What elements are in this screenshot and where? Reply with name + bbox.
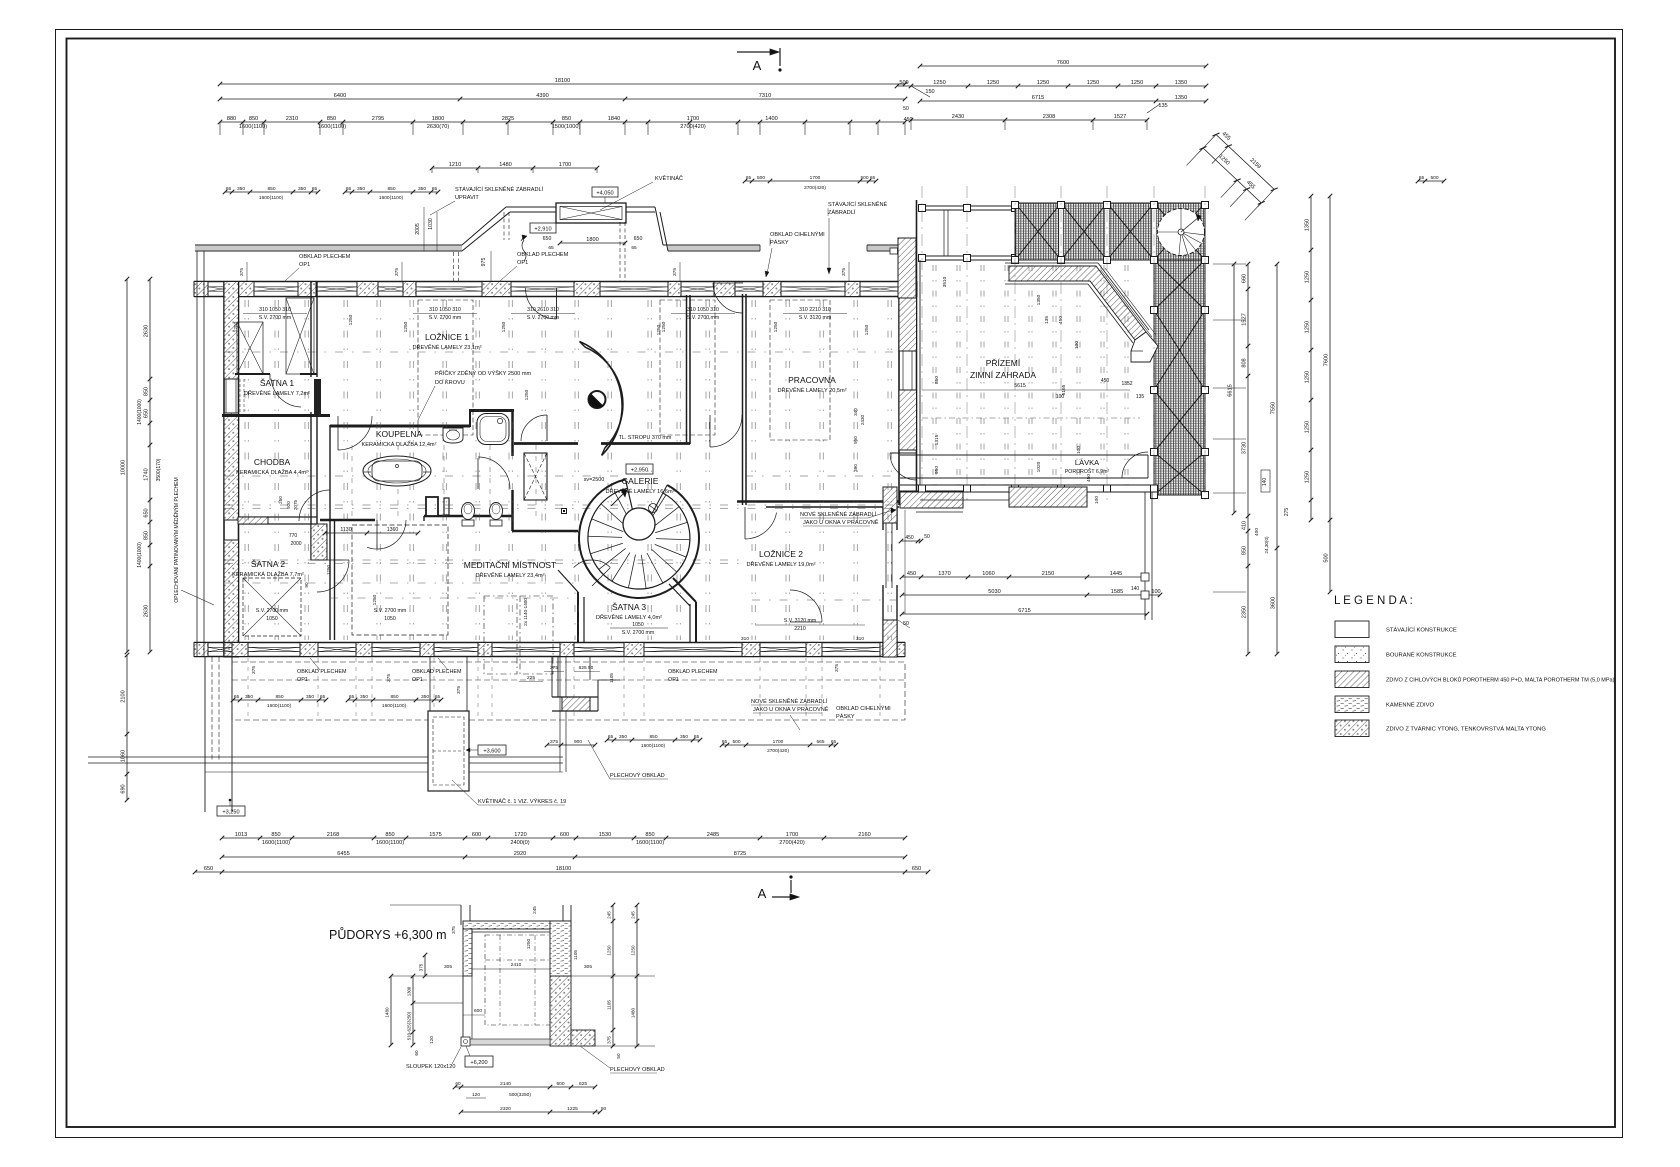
bottom small dim groups	[233, 699, 326, 701]
svg-text:340: 340	[853, 408, 858, 416]
railing dashed connectors	[453, 252, 455, 281]
wall pillar top x298	[298, 282, 316, 297]
svg-text:UPRAVIT: UPRAVIT	[455, 195, 479, 201]
svg-text:1250: 1250	[987, 80, 999, 86]
wall meditacni left	[329, 521, 331, 640]
column top 922	[919, 205, 926, 212]
svg-text:1250: 1250	[933, 80, 945, 86]
svg-text:6715: 6715	[1018, 608, 1030, 614]
svg-text:LÁVKA: LÁVKA	[1075, 458, 1099, 467]
right brace X 452	[1154, 452, 1205, 495]
svg-text:2100: 2100	[121, 690, 127, 702]
section symbol circle galerie	[589, 391, 606, 408]
interior joist lines vertical	[343, 300, 345, 640]
svg-text:1600(1100): 1600(1100)	[379, 195, 404, 201]
window top 254	[254, 286, 298, 288]
svg-text:STÁVAJÍCÍ KONSTRUKCE: STÁVAJÍCÍ KONSTRUKCE	[1386, 627, 1457, 634]
koupelna dims 1130 1360	[325, 532, 418, 534]
svg-text:1352: 1352	[1121, 381, 1132, 387]
svg-text:1250: 1250	[864, 324, 870, 335]
svg-text:ŠATNA 2: ŠATNA 2	[251, 559, 286, 569]
svg-text:310 1050 310: 310 1050 310	[687, 307, 719, 313]
svg-text:350: 350	[245, 694, 253, 700]
svg-text:S.V. 2700 mm: S.V. 2700 mm	[374, 608, 406, 614]
wall pillar bottom x232	[232, 643, 248, 657]
svg-text:850: 850	[144, 531, 150, 540]
svg-text:1600(1100): 1600(1100)	[376, 840, 404, 846]
svg-text:1250: 1250	[348, 314, 354, 325]
svg-text:850: 850	[645, 832, 654, 838]
door loznice2	[744, 507, 746, 539]
svg-text:1250: 1250	[773, 321, 779, 332]
wc 2	[490, 503, 503, 520]
door satna3 diag	[592, 568, 610, 586]
svg-text:OBKLAD PLECHEM: OBKLAD PLECHEM	[668, 669, 718, 675]
svg-text:500: 500	[860, 175, 868, 181]
detail ext lines	[571, 975, 655, 977]
planter kvetinac top	[556, 203, 626, 223]
door top loznice1	[713, 283, 743, 313]
stair arrow	[611, 492, 625, 506]
door top balcony loznice1	[556, 288, 558, 319]
svg-text:245: 245	[607, 911, 612, 919]
svg-text:+4,050: +4,050	[596, 191, 613, 197]
dimension chain top row detailed	[220, 121, 905, 123]
svg-text:390: 390	[853, 464, 858, 472]
svg-text:1250: 1250	[1305, 271, 1311, 283]
dimension chain garden 6715	[902, 613, 1147, 615]
duct stub koupelna	[426, 497, 438, 516]
svg-text:POROROŠT 6,9m²: POROROŠT 6,9m²	[1065, 468, 1110, 475]
right brace X 390	[1154, 390, 1205, 452]
svg-text:65: 65	[346, 186, 352, 192]
lower left wall strip	[204, 657, 206, 812]
svg-text:OBKLAD PLECHEM: OBKLAD PLECHEM	[517, 252, 569, 258]
roof spiral stair	[1158, 209, 1205, 256]
svg-text:65: 65	[631, 245, 637, 251]
dimension chain 7600 top right	[920, 65, 1206, 67]
svg-text:2430: 2430	[952, 114, 964, 120]
svg-text:KAMENNÉ ZDIVO: KAMENNÉ ZDIVO	[1386, 702, 1434, 709]
svg-text:1105: 1105	[573, 950, 578, 960]
svg-text:PLECHOVÝ OBKLAD: PLECHOVÝ OBKLAD	[610, 772, 665, 779]
svg-text:S.V. 2700 mm: S.V. 2700 mm	[622, 630, 654, 636]
junction wall block below lavka	[900, 491, 963, 508]
svg-text:4390: 4390	[536, 93, 548, 99]
svg-text:5030: 5030	[988, 589, 1000, 595]
svg-text:600: 600	[474, 1008, 482, 1014]
wall pillar top x574	[574, 282, 600, 297]
svg-text:60: 60	[455, 1081, 461, 1087]
dimension chain left 10000	[126, 279, 128, 652]
svg-text:1250: 1250	[1087, 80, 1099, 86]
column right 260	[1151, 257, 1158, 264]
window bottom 248	[248, 646, 300, 648]
planter below	[429, 657, 431, 711]
wall pracovna left	[742, 294, 744, 505]
svg-text:100: 100	[1074, 341, 1080, 349]
wall pillar top x845	[845, 282, 860, 297]
svg-text:NOVÉ SKLENĚNÉ ZÁBRADLÍ: NOVÉ SKLENĚNÉ ZÁBRADLÍ	[751, 697, 828, 705]
svg-text:50: 50	[903, 106, 909, 112]
svg-text:650: 650	[543, 236, 552, 242]
wall pillar bottom x560	[560, 643, 574, 657]
dimension chain bottom 6455 2920 8725	[222, 856, 905, 858]
small black square galerie	[562, 509, 567, 514]
svg-text:OP1: OP1	[297, 677, 308, 683]
svg-text:375: 375	[451, 926, 456, 934]
svg-text:6400: 6400	[334, 93, 346, 99]
svg-text:ZIMNÍ ZAHRADA: ZIMNÍ ZAHRADA	[970, 370, 1036, 380]
window top 735	[735, 286, 763, 288]
svg-text:1013: 1013	[235, 832, 247, 838]
svg-text:1527: 1527	[1114, 114, 1126, 120]
svg-text:120: 120	[472, 1092, 480, 1098]
winter garden bottom hatch block	[1009, 487, 1087, 507]
wall pillar bottom x880	[880, 643, 905, 657]
detail bottom dim chains	[455, 1086, 595, 1088]
section mark A top	[737, 51, 770, 53]
svg-text:350: 350	[421, 694, 429, 700]
svg-text:KVĚTINÁČ: KVĚTINÁČ	[655, 174, 683, 182]
column top 1015	[1012, 205, 1019, 212]
lavka door arc	[1122, 452, 1148, 478]
bottom dim 375 900 group	[547, 744, 595, 746]
svg-text:1600(1100): 1600(1100)	[641, 743, 666, 749]
svg-text:1700: 1700	[687, 116, 699, 122]
svg-text:1250: 1250	[1305, 321, 1311, 333]
svg-text:2700(420): 2700(420)	[779, 840, 805, 846]
svg-text:500: 500	[757, 175, 765, 181]
wall satna1 right	[310, 281, 312, 377]
svg-text:5615: 5615	[1014, 383, 1026, 389]
svg-text:PŮDORYS +6,300 m: PŮDORYS +6,300 m	[329, 927, 447, 942]
svg-text:900: 900	[574, 739, 582, 745]
window top 860	[860, 286, 899, 288]
svg-text:310: 310	[741, 636, 749, 642]
svg-text:KVĚTINÁČ č. 1 VIZ. VÝKRES č. 1: KVĚTINÁČ č. 1 VIZ. VÝKRES č. 19	[478, 797, 566, 805]
wall pillar bottom x356	[356, 643, 372, 657]
winter garden left wall junction	[919, 260, 921, 492]
svg-text:1250: 1250	[501, 321, 507, 332]
wall pillar top x357	[357, 282, 378, 297]
wall vestibule bottom thick	[222, 414, 330, 417]
svg-text:7600: 7600	[1057, 60, 1069, 66]
winter garden interior verticals	[932, 265, 934, 485]
svg-text:50: 50	[924, 534, 930, 540]
svg-text:1480: 1480	[499, 162, 511, 168]
svg-text:310 1050 310: 310 1050 310	[259, 307, 291, 313]
svg-text:410: 410	[1242, 521, 1248, 530]
svg-text:1585: 1585	[1111, 589, 1123, 595]
svg-text:600: 600	[556, 1081, 564, 1087]
lower horizontal lines	[88, 756, 563, 758]
svg-text:2310: 2310	[286, 116, 298, 122]
label +3,250 boxed	[217, 806, 245, 816]
door pracovna	[790, 621, 822, 623]
svg-text:140: 140	[1131, 586, 1140, 592]
svg-text:CHODBA: CHODBA	[254, 457, 291, 467]
svg-text:1350: 1350	[1175, 95, 1187, 101]
winter garden roof hatched band	[1015, 203, 1205, 260]
window top 681	[681, 286, 714, 288]
dimension chain left lower	[126, 655, 128, 800]
galerie curved balustrade	[580, 342, 623, 456]
window bottom 318	[318, 646, 356, 648]
wall chodba right	[310, 412, 312, 560]
wall pillar top x668	[668, 282, 681, 297]
dimension chain 2430 2308 1527	[911, 119, 1147, 121]
svg-text:1350: 1350	[1305, 219, 1311, 231]
svg-text:1480: 1480	[631, 1007, 636, 1018]
svg-text:650: 650	[144, 508, 150, 517]
svg-text:1250: 1250	[631, 945, 636, 956]
svg-text:450: 450	[907, 571, 916, 577]
svg-text:STÁVAJÍCÍ SKLENĚNÉ: STÁVAJÍCÍ SKLENĚNÉ	[828, 200, 888, 208]
svg-text:2700(420): 2700(420)	[680, 124, 706, 130]
svg-text:1600(1100): 1600(1100)	[267, 703, 292, 709]
svg-text:1600(1100): 1600(1100)	[259, 195, 284, 201]
svg-text:TL. STROPU 370 mm: TL. STROPU 370 mm	[619, 435, 672, 441]
column bottom 1061	[1058, 485, 1065, 492]
bottom right dim group	[722, 744, 836, 746]
svg-text:2795: 2795	[372, 116, 384, 122]
svg-text:850: 850	[327, 116, 336, 122]
top exterior wall band	[194, 281, 917, 283]
wall pillar top x194	[194, 282, 208, 297]
svg-text:L E G E N D A :: L E G E N D A :	[1334, 595, 1413, 607]
labels 650 1800 650 above wall	[560, 242, 625, 244]
svg-text:375: 375	[672, 268, 678, 276]
svg-text:2630: 2630	[144, 605, 150, 617]
top dim group 1700 2700(420) middle	[745, 180, 876, 182]
svg-text:1020: 1020	[1036, 461, 1042, 472]
lavka strip	[900, 454, 1148, 456]
window bottom 644	[644, 646, 742, 648]
wc 1	[462, 503, 475, 520]
svg-text:JAKO U OKNA V PRACOVNĚ: JAKO U OKNA V PRACOVNĚ	[803, 518, 879, 526]
svg-text:650: 650	[144, 409, 150, 418]
svg-text:DŘEVĚNÉ LAMELY 20,5m²: DŘEVĚNÉ LAMELY 20,5m²	[777, 386, 846, 394]
roof mullion strip 1107	[1105, 203, 1109, 260]
svg-text:1250: 1250	[233, 321, 239, 332]
svg-text:1050: 1050	[266, 616, 278, 622]
svg-text:1350: 1350	[1175, 80, 1187, 86]
garden chain extension corner	[904, 510, 906, 614]
svg-text:2005: 2005	[415, 223, 421, 235]
svg-text:1360: 1360	[387, 527, 399, 533]
svg-text:3510: 3510	[942, 276, 948, 287]
svg-text:375: 375	[239, 268, 245, 276]
left exterior wall	[223, 282, 225, 658]
svg-text:850: 850	[271, 832, 280, 838]
svg-text:350: 350	[360, 694, 368, 700]
svg-text:1315: 1315	[934, 434, 940, 445]
svg-text:2485: 2485	[707, 832, 719, 838]
svg-text:770: 770	[289, 533, 298, 539]
svg-text:350: 350	[306, 694, 314, 700]
window top 316	[316, 286, 357, 288]
svg-text:ZÁBRADLÍ: ZÁBRADLÍ	[828, 209, 856, 216]
svg-text:PÁSKY: PÁSKY	[836, 713, 855, 720]
svg-text:2350: 2350	[1242, 606, 1248, 618]
wall loznice1 right	[686, 295, 688, 444]
svg-text:375: 375	[607, 1036, 612, 1044]
roof brace X 5	[1015, 203, 1061, 260]
svg-text:6455: 6455	[337, 851, 349, 857]
svg-text:1800: 1800	[432, 116, 444, 122]
svg-text:135: 135	[1136, 394, 1145, 400]
detail inner dashed	[485, 935, 550, 1025]
svg-text:65: 65	[320, 694, 326, 700]
svg-text:S.V. 2700 mm: S.V. 2700 mm	[256, 608, 288, 614]
wall pillar top x237	[237, 282, 254, 297]
svg-text:375: 375	[550, 739, 558, 745]
svg-text:ZDIVO Z TVÁRNIC YTONG, TENKOVR: ZDIVO Z TVÁRNIC YTONG, TENKOVRSTVÁ MALTA…	[1386, 726, 1546, 733]
svg-text:PÁSKY: PÁSKY	[770, 239, 789, 246]
window top 378	[378, 286, 403, 288]
svg-text:1800: 1800	[586, 237, 598, 243]
column top 967	[964, 205, 971, 212]
parapet inner step	[1131, 332, 1158, 362]
svg-text:2630: 2630	[144, 325, 150, 337]
svg-text:+3,250: +3,250	[222, 810, 239, 816]
svg-text:510-625(3250): 510-625(3250)	[407, 1011, 412, 1040]
svg-text:OP1: OP1	[668, 677, 679, 683]
svg-text:400: 400	[1254, 528, 1260, 536]
wall satna1 bottom	[235, 373, 270, 375]
svg-text:PŘÍZEMÍ: PŘÍZEMÍ	[986, 358, 1021, 368]
winter garden bottom beam	[900, 484, 1154, 486]
svg-text:660: 660	[1242, 274, 1248, 283]
column bottom 922	[919, 485, 926, 492]
window bottom 434	[434, 646, 478, 648]
svg-text:6715: 6715	[1032, 95, 1044, 101]
column roof 1205	[1202, 202, 1209, 209]
svg-text:ZDIVO Z CIHLOVÝCH BLOKŮ POROTH: ZDIVO Z CIHLOVÝCH BLOKŮ POROTHERM 450 P+…	[1386, 677, 1615, 684]
svg-text:1600(1100): 1600(1100)	[636, 840, 664, 846]
svg-text:245: 245	[631, 911, 636, 919]
svg-text:65: 65	[432, 186, 438, 192]
winter garden right hatched band	[1154, 260, 1205, 495]
window bottom 372	[372, 646, 420, 648]
detail right wall ytong	[550, 976, 571, 1046]
detail right dim chains	[612, 905, 614, 1046]
svg-text:600: 600	[560, 832, 569, 838]
svg-text:450: 450	[1101, 378, 1110, 384]
wall pillar top x482	[482, 282, 511, 297]
svg-text:1700: 1700	[773, 739, 784, 745]
svg-text:450: 450	[904, 117, 913, 123]
svg-text:650: 650	[912, 866, 921, 872]
svg-text:KOUPELNA: KOUPELNA	[376, 429, 423, 439]
column bottom 1107	[1104, 485, 1111, 492]
svg-text:90: 90	[304, 582, 309, 588]
svg-text:DŘEVĚNÉ LAMELY 23,1m²: DŘEVĚNÉ LAMELY 23,1m²	[412, 343, 481, 351]
svg-text:1500(1000): 1500(1000)	[552, 124, 581, 130]
column roof 1061	[1058, 202, 1065, 209]
wall koupelna left	[329, 425, 331, 521]
svg-text:375: 375	[550, 665, 558, 671]
svg-text:1250: 1250	[1305, 471, 1311, 483]
svg-text:65: 65	[722, 739, 728, 745]
svg-text:10000: 10000	[121, 460, 127, 476]
winter garden interior horizontals	[922, 389, 1130, 391]
window bottom 760	[760, 646, 806, 648]
svg-text:65: 65	[234, 694, 240, 700]
wall pillar bottom x806	[806, 643, 822, 657]
column right 495	[1151, 492, 1158, 499]
column bottom 1015	[1012, 485, 1019, 492]
svg-text:1250: 1250	[607, 945, 612, 956]
door galerie right	[709, 415, 711, 447]
svg-text:ŠATNA 1: ŠATNA 1	[260, 378, 295, 388]
svg-text:DŘEVĚNÉ LAMELY 23,4m²: DŘEVĚNÉ LAMELY 23,4m²	[475, 571, 544, 579]
svg-text:2x 1140-1400: 2x 1140-1400	[523, 598, 528, 626]
svg-text:S.V. 2700 mm: S.V. 2700 mm	[429, 315, 461, 321]
detail left wall	[463, 929, 472, 976]
svg-text:ŠATNA 3: ŠATNA 3	[612, 602, 647, 612]
window right wall	[902, 351, 904, 390]
column bottom 1154	[1151, 485, 1158, 492]
planter axis verticals	[559, 657, 561, 772]
dimension chain right 7550	[1276, 264, 1278, 654]
svg-text:1250: 1250	[1037, 80, 1049, 86]
svg-text:SLOUPEK 120x120: SLOUPEK 120x120	[406, 1064, 455, 1070]
svg-text:450: 450	[1086, 474, 1092, 482]
door meditacni	[376, 520, 378, 549]
svg-text:1060: 1060	[982, 571, 994, 577]
svg-text:DŘEVĚNÉ LAMELY 19,0m²: DŘEVĚNÉ LAMELY 19,0m²	[746, 560, 815, 568]
svg-text:BOURANÉ KONSTRUKCE: BOURANÉ KONSTRUKCE	[1386, 652, 1457, 659]
wardrobe satna2	[243, 578, 301, 636]
svg-text:1700: 1700	[559, 162, 571, 168]
svg-text:950: 950	[853, 436, 858, 444]
svg-text:100: 100	[1076, 446, 1082, 454]
column right 310	[1151, 307, 1158, 314]
svg-text:1840: 1840	[608, 116, 620, 122]
column verticals colonnade	[943, 210, 945, 256]
door pracovna east	[890, 452, 917, 454]
svg-text:1250: 1250	[1305, 371, 1311, 383]
svg-text:850: 850	[267, 186, 275, 192]
window top 781	[781, 286, 845, 288]
svg-text:250: 250	[278, 496, 283, 504]
svg-text:65: 65	[608, 734, 614, 740]
skylight galerie	[524, 453, 547, 500]
svg-text:DŘEVĚNÉ LAMELY 7,2m²: DŘEVĚNÉ LAMELY 7,2m²	[244, 389, 310, 397]
svg-text:LOŽNICE 2: LOŽNICE 2	[759, 549, 803, 559]
label +2,910 with squiggle	[530, 223, 556, 233]
svg-text:375: 375	[386, 674, 392, 682]
svg-text:1300: 1300	[407, 986, 412, 996]
svg-text:8725: 8725	[734, 851, 746, 857]
window bottom 574	[574, 646, 624, 648]
wall chodba/satna2 divider	[238, 516, 317, 518]
svg-text:65: 65	[548, 245, 554, 251]
door satna2	[317, 559, 349, 561]
svg-text:1400(1000): 1400(1000)	[137, 399, 143, 425]
svg-text:A: A	[753, 58, 762, 73]
svg-text:500(3250): 500(3250)	[509, 1092, 531, 1098]
svg-text:690: 690	[121, 784, 127, 793]
svg-text:120: 120	[429, 1036, 434, 1044]
svg-text:1250: 1250	[526, 938, 531, 949]
svg-text:850: 850	[387, 186, 395, 192]
svg-text:65: 65	[349, 694, 355, 700]
svg-text:60: 60	[414, 1050, 419, 1056]
svg-text:1050: 1050	[384, 616, 396, 622]
